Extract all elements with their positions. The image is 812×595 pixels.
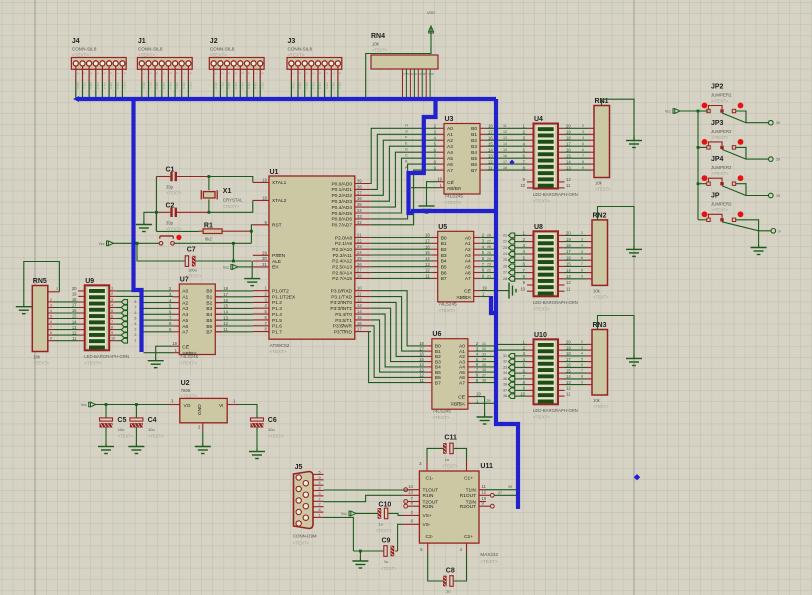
ground JP [751,244,767,255]
svg-text:4: 4 [96,73,100,75]
wire VDD to U2 VO [96,404,168,406]
svg-text:A1: A1 [447,132,453,138]
svg-text:P1.5: P1.5 [272,318,282,324]
svg-text:C2+: C2+ [464,534,473,540]
svg-text:8k2: 8k2 [205,237,212,242]
svg-text:B7: B7 [435,380,441,386]
wire J5 pin8 to T1OUT [324,489,408,491]
svg-text:A2: A2 [182,300,188,306]
svg-text:2: 2 [111,292,113,296]
svg-text:<TEXT>: <TEXT> [166,191,182,196]
VDD power terminal U2 [89,402,91,407]
svg-text:P2.4/A12: P2.4/A12 [332,259,352,265]
svg-text:6: 6 [109,73,113,75]
wire RST junction down [250,231,252,243]
svg-text:12: 12 [566,177,571,182]
svg-text:8: 8 [581,375,583,379]
svg-text:<TEXT>: <TEXT> [712,171,729,176]
svg-text:AB/BA: AB/BA [447,186,462,192]
svg-text:22: 22 [503,240,507,244]
bus right vertical [496,99,518,509]
terminals on U8 pins [515,234,528,236]
svg-text:P2.5/A13: P2.5/A13 [332,265,352,271]
svg-text:C4: C4 [148,417,157,424]
svg-text:A6: A6 [447,162,453,168]
svg-text:J4: J4 [72,38,80,45]
svg-text:CONN-SIL8: CONN-SIL8 [288,47,313,52]
svg-text:15: 15 [419,357,424,362]
svg-text:13: 13 [408,490,413,495]
U7 right pin stubs [215,290,221,292]
svg-text:<TEXT>: <TEXT> [480,559,497,564]
svg-text:2: 2 [50,298,52,302]
svg-text:JP4: JP4 [711,156,724,163]
VDD power terminal reset [107,241,109,246]
wires U1 P2 to U5 [371,237,431,239]
wire J5 pin1 down [324,517,354,551]
svg-text:CONN-SIL8: CONN-SIL8 [138,47,163,52]
svg-text:9: 9 [581,275,583,279]
svg-text:P3.3: P3.3 [162,83,166,90]
svg-text:JUMPER2: JUMPER2 [711,201,732,206]
svg-text:1: 1 [142,73,146,75]
svg-text:B0: B0 [471,126,477,132]
svg-text:10: 10 [520,391,525,396]
svg-text:6: 6 [319,508,321,512]
svg-text:P5.5: P5.5 [109,83,113,90]
svg-text:B5: B5 [441,265,447,271]
wire C7 left [137,243,185,261]
svg-text:<TEXT>: <TEXT> [180,361,197,366]
wire C9 right to VS- [398,524,403,551]
wires RN5 to U9 [54,301,79,303]
svg-text:26: 26 [357,262,362,267]
svg-text:B6: B6 [206,324,212,330]
svg-text:B6: B6 [441,270,447,276]
svg-text:B7: B7 [206,330,212,336]
svg-text:2: 2 [298,73,302,75]
svg-text:CE: CE [447,180,454,186]
svg-text:5: 5 [581,357,583,361]
wires U4 to RN1 [565,127,589,129]
svg-text:6: 6 [135,311,137,315]
svg-text:R1IN: R1IN [423,493,434,499]
wire C1 to XTAL1 [209,177,253,183]
svg-text:P2.2: P2.2 [155,83,159,90]
svg-text:10: 10 [111,337,115,341]
svg-text:14: 14 [408,484,413,489]
svg-text:12: 12 [503,130,507,134]
svg-text:P3.2/INT0: P3.2/INT0 [330,300,352,306]
wire C10 to VS+ [388,513,403,515]
svg-text:10k: 10k [595,181,603,186]
svg-text:LED-BARGRAPH-GRN: LED-BARGRAPH-GRN [533,192,578,197]
svg-text:A3: A3 [447,144,453,150]
svg-text:7: 7 [116,73,120,75]
svg-text:39: 39 [508,485,512,489]
ground C4 [128,443,144,454]
svg-text:13: 13 [357,303,362,308]
svg-text:5: 5 [111,309,113,313]
svg-text:GND: GND [197,404,203,415]
wire C2 to XTAL2 [209,200,253,212]
push button (reset) [160,235,173,237]
svg-text:U2: U2 [181,380,190,387]
svg-text:21: 21 [487,274,491,278]
svg-text:A7: A7 [465,276,471,282]
svg-text:39: 39 [357,179,362,184]
svg-text:<TEXT>: <TEXT> [288,53,305,58]
svg-text:VDD: VDD [427,11,435,15]
wire RN4 pin1 to VDD [366,28,431,97]
bus main horizontal [79,97,496,101]
wire vcc to JP column [680,110,709,112]
svg-text:6: 6 [422,73,426,75]
svg-text:B0: B0 [435,344,441,350]
VDD power terminal above RN4 [429,26,434,33]
svg-text:JUMPER2: JUMPER2 [711,93,732,98]
svg-text:13: 13 [503,136,507,140]
wires bus to U7 A2-A7 [144,302,173,304]
svg-text:22: 22 [487,269,491,273]
svg-text:<TEXT>: <TEXT> [118,434,134,439]
svg-text:5: 5 [135,317,137,321]
svg-text:16: 16 [357,321,362,326]
svg-text:A5: A5 [459,370,465,376]
svg-text:P3.1/TXD: P3.1/TXD [331,294,352,300]
svg-text:11: 11 [482,484,487,489]
svg-text:10k: 10k [33,355,41,360]
svg-text:3: 3 [227,73,231,75]
svg-text:<TEXT>: <TEXT> [376,528,392,533]
svg-text:7: 7 [426,73,430,75]
wire C8 left to C2- [428,553,443,581]
svg-text:1u: 1u [384,559,388,564]
svg-text:34: 34 [357,208,362,213]
svg-text:3: 3 [155,73,159,75]
svg-text:10k: 10k [593,398,601,403]
svg-text:<TEXT>: <TEXT> [84,360,101,365]
svg-text:35: 35 [357,202,362,207]
svg-text:P1.4: P1.4 [272,312,282,318]
svg-text:29: 29 [776,158,780,162]
svg-text:AB/BA: AB/BA [182,351,197,357]
svg-text:<TEXT>: <TEXT> [712,99,729,104]
svg-text:14: 14 [503,142,507,146]
U6 CE and AB/BA pins [468,396,475,398]
svg-text:B6: B6 [471,162,477,168]
svg-text:8: 8 [338,73,342,75]
svg-text:P0.0: P0.0 [76,83,80,90]
svg-text:12: 12 [357,297,362,302]
svg-text:<TEXT>: <TEXT> [372,48,388,53]
svg-text:29: 29 [487,399,491,403]
svg-text:11: 11 [566,391,571,396]
svg-text:<TEXT>: <TEXT> [432,415,449,420]
svg-text:B2: B2 [471,138,477,144]
U4 pin stubs [527,127,534,129]
svg-text:LED-BARGRAPH-GRN: LED-BARGRAPH-GRN [533,300,578,305]
svg-text:P7.7: P7.7 [260,83,264,90]
svg-text:P3.3: P3.3 [96,83,100,90]
svg-text:16: 16 [566,255,571,260]
svg-text:27: 27 [503,271,507,275]
wire U2 GND to ground [202,431,204,443]
ground right of U5 [506,283,517,299]
svg-text:VS-: VS- [423,522,431,528]
svg-text:U11: U11 [480,463,493,470]
wire C11 left to C1- [427,448,443,461]
svg-text:4: 4 [135,322,137,326]
svg-text:P2.2: P2.2 [89,83,93,90]
svg-text:3: 3 [581,346,583,350]
svg-text:<TEXT>: <TEXT> [445,200,462,205]
svg-text:A6: A6 [182,324,188,330]
svg-text:P0.2/AD2: P0.2/AD2 [331,193,352,199]
svg-text:A3: A3 [182,306,188,312]
svg-text:B2: B2 [435,354,441,360]
svg-text:<TEXT>: <TEXT> [712,135,729,140]
bus stub for U5 AB/BA [491,296,496,313]
svg-text:3: 3 [319,492,321,496]
svg-text:2: 2 [406,73,410,75]
svg-text:32: 32 [357,220,362,225]
svg-text:C11: C11 [444,435,457,442]
svg-text:P0.1/AD1: P0.1/AD1 [331,187,352,193]
svg-text:P0.5/AD5: P0.5/AD5 [331,211,352,217]
svg-text:B3: B3 [471,144,477,150]
svg-text:P3.3/INT1: P3.3/INT1 [330,306,352,312]
svg-text:B4: B4 [471,150,477,156]
svg-text:4: 4 [581,244,583,248]
svg-text:P2.7/A15: P2.7/A15 [332,276,352,282]
svg-text:10u: 10u [268,427,275,432]
wires U6 A pins to bus [474,345,494,347]
svg-text:7: 7 [135,306,137,310]
svg-text:7: 7 [331,73,335,75]
svg-text:22: 22 [357,238,362,243]
svg-text:11: 11 [566,286,571,291]
svg-text:B1: B1 [435,349,441,355]
wire U7 CE to ground [156,346,173,357]
svg-text:<TEXT>: <TEXT> [268,434,284,439]
svg-text:XTAL2: XTAL2 [272,198,287,204]
svg-text:13: 13 [566,380,571,385]
svg-text:C6: C6 [268,417,277,424]
svg-text:D: D [405,147,408,151]
svg-text:17: 17 [419,346,424,351]
svg-text:T1IN: T1IN [466,488,477,494]
svg-text:31: 31 [482,342,486,346]
svg-text:33: 33 [357,214,362,219]
svg-text:B7: B7 [471,168,477,174]
svg-text:6: 6 [581,256,583,260]
svg-text:P3.5/T1: P3.5/T1 [335,318,352,324]
svg-text:Vcc: Vcc [99,242,105,246]
svg-text:B4: B4 [206,312,212,318]
svg-text:37: 37 [498,491,502,495]
svg-text:U4: U4 [534,116,543,123]
svg-text:B0: B0 [441,235,447,241]
ground RN3 [626,355,642,366]
svg-text:1u: 1u [445,457,449,462]
svg-text:8: 8 [582,160,584,164]
U3 CE and AB/BA pins [438,181,445,183]
wires U1 P3 to U6 B pins [371,291,426,346]
svg-text:B5: B5 [435,370,441,376]
U5 CE and AB/BA pins [474,290,481,292]
svg-text:B3: B3 [441,253,447,259]
svg-text:7: 7 [182,73,186,75]
svg-text:7: 7 [319,497,321,501]
svg-text:10k: 10k [372,42,380,47]
svg-text:P2.1/A9: P2.1/A9 [335,241,352,247]
ground RN1 [626,137,642,148]
wire RN2 pin1 to ground [598,207,635,250]
svg-text:<TEXT>: <TEXT> [438,308,455,313]
svg-text:4: 4 [50,309,52,313]
svg-text:9: 9 [50,337,52,341]
svg-text:1: 1 [76,73,80,75]
svg-text:4: 4 [311,73,315,75]
svg-text:P6.6: P6.6 [331,83,335,90]
svg-text:6: 6 [111,314,113,318]
ground EA [244,275,260,286]
origin marker 2 [509,160,514,165]
origin marker 1 [634,474,640,480]
svg-text:8: 8 [430,73,434,75]
RN3 pin stubs [586,343,592,345]
svg-text:B6: B6 [435,375,441,381]
svg-text:C9: C9 [382,538,391,545]
svg-text:A2: A2 [447,138,453,144]
svg-text:1: 1 [56,287,58,291]
svg-text:19: 19 [482,286,487,291]
svg-text:CE: CE [464,289,471,295]
svg-text:21: 21 [357,233,362,238]
svg-text:U3: U3 [445,116,454,123]
svg-text:P0.0: P0.0 [142,83,146,90]
svg-text:28: 28 [357,273,362,278]
svg-text:P5.5: P5.5 [175,83,179,90]
svg-text:P7.7: P7.7 [338,83,342,90]
wire C1-C2 left vertical [155,177,157,232]
svg-text:19: 19 [776,194,780,198]
wires U7 B pins to U1 P1 [222,290,253,292]
svg-text:9: 9 [111,331,113,335]
svg-text:39: 39 [776,121,780,125]
svg-text:U5: U5 [438,224,447,231]
U8 pin stubs [527,234,534,236]
svg-text:<TEXT>: <TEXT> [533,414,550,419]
wires U1 P0 bus to U3 A pins [371,128,438,183]
svg-text:5: 5 [418,73,422,75]
svg-text:6: 6 [247,73,251,75]
svg-text:6: 6 [175,73,179,75]
svg-text:27: 27 [357,268,362,273]
svg-text:JUMPER2: JUMPER2 [711,165,732,170]
svg-text:XTAL1: XTAL1 [272,180,287,186]
svg-text:<TEXT>: <TEXT> [138,53,155,58]
svg-text:P0.0: P0.0 [214,83,218,90]
svg-text:P4.4: P4.4 [240,83,244,90]
svg-text:R1OUT: R1OUT [460,493,476,499]
svg-text:2: 2 [83,73,87,75]
svg-text:30: 30 [262,256,267,261]
ground RN2 [626,246,642,257]
svg-text:32: 32 [482,347,486,351]
svg-text:MAX232: MAX232 [480,552,498,557]
wire EA net [238,266,253,268]
svg-text:5: 5 [581,250,583,254]
svg-text:13: 13 [419,367,424,372]
svg-text:11: 11 [357,292,362,297]
svg-text:13: 13 [488,153,493,158]
svg-text:P7.7: P7.7 [123,83,127,90]
svg-text:ALE: ALE [272,259,281,265]
svg-text:19: 19 [476,392,481,397]
svg-text:8: 8 [135,300,137,304]
U7 CE and AB/BA pins [173,345,180,347]
svg-text:RN5: RN5 [33,278,47,285]
svg-text:U10: U10 [534,332,547,339]
svg-text:17: 17 [357,327,362,332]
svg-text:P1.3: P1.3 [272,306,282,312]
svg-text:C5: C5 [117,417,126,424]
bus loop around U3 [409,99,436,213]
VDD power terminal C10 [349,511,351,516]
svg-text:P2.2: P2.2 [227,83,231,90]
svg-text:B0: B0 [206,289,212,295]
svg-text:31: 31 [262,262,267,267]
svg-text:74LS245: 74LS245 [432,409,451,414]
svg-text:<TEXT>: <TEXT> [593,404,609,409]
svg-text:31: 31 [503,354,507,358]
svg-text:25: 25 [503,258,507,262]
svg-text:C2-: C2- [426,534,434,540]
svg-text:PSEN: PSEN [272,253,286,259]
svg-text:38: 38 [503,394,507,398]
svg-text:A0: A0 [459,344,465,350]
svg-text:37: 37 [503,388,507,392]
svg-text:C1-: C1- [426,476,434,482]
svg-text:10u: 10u [118,427,125,432]
svg-text:B5: B5 [206,318,212,324]
capacitor C4 [135,405,137,418]
svg-text:P0.0: P0.0 [292,83,296,90]
svg-text:18: 18 [503,166,507,170]
wire RN5 pin1 to ground [24,262,60,304]
svg-text:3: 3 [305,73,309,75]
wire ground segment [353,550,383,552]
wire U6 CE to ground [474,397,484,414]
svg-text:<TEXT>: <TEXT> [186,274,202,279]
wire R1OUT to bus [494,494,516,496]
svg-text:74LS245: 74LS245 [438,301,457,306]
svg-text:1: 1 [600,324,602,328]
svg-text:16: 16 [223,298,228,303]
svg-text:25: 25 [487,251,491,255]
wire J5 pin7 to R1IN [324,495,403,501]
svg-text:P1.1/T2EX: P1.1/T2EX [272,294,296,300]
wire T1IN to bus [486,489,516,491]
svg-text:19: 19 [262,177,267,182]
svg-text:<TEXT>: <TEXT> [223,204,240,209]
svg-text:A3: A3 [459,359,465,365]
svg-text:P0.7/AD7: P0.7/AD7 [331,223,352,229]
svg-text:P1.2: P1.2 [272,300,282,306]
svg-text:P3.3: P3.3 [311,83,315,90]
